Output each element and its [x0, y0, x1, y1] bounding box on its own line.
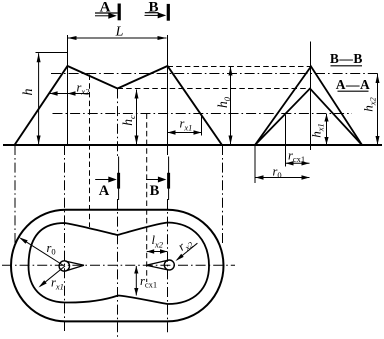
label h [21, 89, 36, 96]
label A top [100, 0, 111, 16]
svg-text:A: A [99, 183, 110, 199]
dimension h_c line [135, 90, 139, 145]
left toe extension line [14, 145, 16, 243]
svg-text:lx2: lx2 [152, 233, 164, 250]
label r_x1 plan [51, 276, 64, 292]
label r_x1 [180, 117, 193, 133]
label A underline [95, 12, 118, 14]
label h_x2 [361, 96, 378, 111]
dimension r_0 line section [256, 175, 310, 179]
svg-text:rx2: rx2 [175, 234, 195, 255]
label B underline [145, 12, 159, 14]
svg-text:rx2: rx2 [77, 81, 91, 97]
section B cutting bar middle [167, 157, 170, 201]
dashed saddle level line y=88.5 [118, 88, 311, 90]
dimension l_x2 line [147, 249, 168, 253]
r_cx1 extension line [285, 115, 287, 167]
dashed peak level line y=66 [168, 66, 312, 68]
radius r_x2 arrow plan [176, 243, 198, 261]
label B middle [150, 183, 160, 199]
label r_cx1 section [288, 149, 305, 165]
label A-A underline [338, 90, 369, 92]
svg-text:L: L [115, 25, 124, 40]
svg-text:rx1: rx1 [51, 276, 64, 292]
ground line [3, 144, 382, 146]
label l_x2 [152, 233, 164, 250]
svg-text:B—B: B—B [330, 51, 363, 66]
label h_c [120, 115, 137, 126]
svg-text:h: h [21, 89, 36, 96]
label B top [148, 0, 158, 16]
section B arrow middle [146, 177, 166, 183]
label L [115, 25, 124, 40]
label B-B [330, 51, 363, 66]
dimension r_cx1 plan line [134, 266, 138, 296]
section B-B cone outline [255, 67, 362, 146]
dimension h_0 line [229, 67, 233, 145]
svg-text:r0: r0 [47, 241, 56, 257]
pile profile (two peaks with saddle) [15, 66, 223, 145]
saddle axis / section A line [117, 89, 119, 339]
svg-text:hc: hc [120, 115, 137, 126]
svg-text:A—A: A—A [336, 77, 371, 92]
section B cutting bar top [167, 4, 170, 21]
left charge mark [59, 261, 84, 271]
right peak axis [167, 35, 169, 145]
label r_0 plan [47, 241, 56, 257]
dashed extension line x=146.7 [146, 114, 148, 283]
plan left crater axis [64, 145, 66, 333]
label h_x1 [309, 123, 326, 138]
svg-text:hx2: hx2 [361, 96, 378, 111]
svg-text:rcx1: rcx1 [288, 149, 305, 165]
plan right crater axis [167, 145, 169, 334]
svg-text:rx1: rx1 [180, 117, 193, 133]
dimension L line [68, 36, 167, 40]
left peak axis [67, 35, 69, 145]
label r_x2 [77, 81, 91, 97]
section A cutting bar middle [117, 157, 120, 201]
radius r_x1 arrow plan [39, 266, 66, 288]
dimension h_x2 line [376, 74, 380, 145]
svg-text:rcx1: rcx1 [140, 274, 157, 290]
dashed extension line x=89 [89, 75, 91, 228]
label r_cx1 plan [140, 274, 157, 290]
dimension r_x2 line [50, 91, 90, 95]
cone base left extension [254, 145, 256, 183]
level line h_x2 (dash-dot y=74) [51, 73, 379, 75]
svg-text:hx1: hx1 [309, 123, 326, 138]
section B arrow top [145, 12, 167, 18]
label B-B underline [331, 65, 363, 67]
section A arrow middle [95, 177, 117, 183]
r_x1 extension line [201, 116, 203, 136]
plan view horizontal axis [2, 264, 235, 266]
outer pile boundary (stadium) [11, 210, 224, 322]
radius r_0 arrow plan [19, 237, 64, 265]
dimension h line [37, 53, 41, 144]
right toe extension line [222, 145, 224, 246]
section A arrow top [95, 13, 117, 19]
section cone axis [310, 42, 312, 151]
dimension h_x1 line [324, 114, 328, 145]
dimension h tick [36, 52, 69, 54]
dimension r_cx1 line [286, 161, 310, 165]
level line h_x1 (dash-dot y=113.5) [53, 113, 353, 115]
svg-text:h0: h0 [215, 96, 232, 108]
label A-A [336, 77, 371, 92]
section A-A cone outline [255, 89, 362, 146]
svg-text:r0: r0 [273, 165, 282, 181]
label h_0 [215, 96, 232, 108]
dimension r_x1 line [168, 130, 202, 134]
section A cutting bar top [118, 4, 121, 21]
label r_x2 plan [175, 234, 195, 255]
right charge mark [146, 260, 174, 270]
svg-text:B: B [150, 183, 160, 199]
inner crater boundary (dumbbell) [29, 223, 210, 305]
label r_0 section [273, 165, 282, 181]
label A middle [99, 183, 110, 199]
